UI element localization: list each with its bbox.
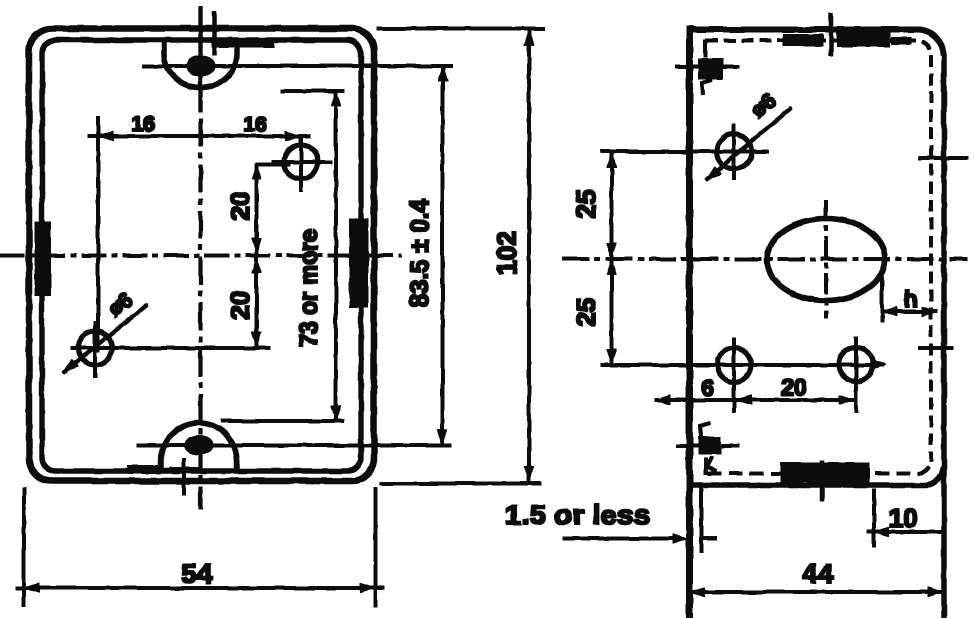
dimension 102 bottom extension bbox=[380, 482, 541, 485]
svg-text:16: 16 bbox=[131, 113, 154, 136]
svg-text:102: 102 bbox=[492, 231, 522, 275]
dimension 20-20 connector to hole bbox=[256, 163, 290, 166]
top center tick bbox=[829, 13, 833, 56]
front view inner wall bbox=[42, 40, 361, 471]
svg-text:25: 25 bbox=[571, 298, 601, 327]
side view left edge bbox=[687, 26, 693, 618]
dimension 102 line bbox=[528, 30, 531, 481]
wall thickness leader line bbox=[563, 537, 684, 540]
ink smudges on top edge bbox=[783, 35, 823, 47]
side view upper screw hole bbox=[717, 134, 752, 169]
svg-text:h: h bbox=[904, 286, 918, 312]
svg-text:20: 20 bbox=[225, 192, 255, 221]
svg-text:54: 54 bbox=[181, 558, 213, 589]
svg-text:44: 44 bbox=[802, 558, 834, 589]
hole centerline through bottom dot (83.5 extension) bbox=[137, 444, 451, 447]
ink smudge on inner bottom edge bbox=[128, 466, 158, 474]
bottom small cross tick horizontal bbox=[170, 468, 199, 471]
dimension 16-16 extension line bbox=[97, 117, 100, 352]
dimension 54 left extension bbox=[23, 488, 26, 607]
horizontal centerline bbox=[0, 254, 401, 257]
bottom boss screw dot bbox=[185, 436, 213, 455]
svg-text:20: 20 bbox=[781, 374, 807, 400]
hidden inner surface top dashed bbox=[706, 41, 931, 462]
svg-text:1.5 or less: 1.5 or less bbox=[505, 500, 650, 530]
dimension h extension bbox=[881, 277, 884, 322]
bottom small cross tick vertical bbox=[183, 458, 186, 495]
hole centerline through top dot (83.5 extension) bbox=[143, 65, 452, 68]
dimension 10 extension bbox=[873, 489, 876, 547]
ellipse vertical centerline bbox=[825, 200, 828, 318]
hidden inner surface bottom dashed bbox=[708, 460, 931, 474]
vertical centerline bbox=[199, 6, 202, 112]
dimension 73 top extension bbox=[281, 90, 344, 93]
svg-text:73 or more: 73 or more bbox=[295, 229, 323, 347]
large cable hole (ellipse) bbox=[767, 219, 885, 301]
leader line for hole diameter right view bbox=[706, 108, 791, 180]
left wall knockout tab bbox=[35, 222, 51, 296]
dimension 102 top extension bbox=[377, 27, 544, 30]
svg-text:6: 6 bbox=[702, 375, 715, 401]
dimension 54 right extension bbox=[374, 488, 377, 607]
dimension 20-20 line bbox=[255, 164, 258, 347]
screw hole upper right bbox=[284, 145, 318, 179]
dimension 73 bottom extension bbox=[221, 420, 344, 423]
screw hole lower left bbox=[78, 331, 112, 365]
front view outer wall bbox=[29, 29, 374, 482]
right edge tick upper bbox=[919, 157, 968, 160]
bottom center tick bbox=[820, 461, 824, 501]
side view horizontal centerline bbox=[563, 258, 967, 261]
top boss screw dot bbox=[187, 56, 215, 76]
side view lower-right screw hole bbox=[839, 348, 873, 382]
svg-text:25: 25 bbox=[571, 190, 601, 219]
side view top edge bbox=[687, 29, 944, 55]
top-left knockout tab bbox=[699, 59, 724, 79]
side view bottom edge bbox=[690, 468, 943, 486]
dimension 6-20 line bbox=[655, 399, 857, 402]
hidden inner surface left hooks bbox=[704, 40, 707, 57]
dimension 10 line bbox=[867, 531, 941, 534]
right edge tick lower bbox=[919, 347, 953, 350]
svg-text:ø6: ø6 bbox=[747, 89, 780, 122]
ink smudge on inner top edge bbox=[212, 39, 274, 48]
leader line for hole diameter bbox=[63, 305, 147, 373]
wall thickness inner surface tick bbox=[700, 487, 703, 553]
dimension 83.5 line bbox=[441, 66, 444, 445]
svg-text:20: 20 bbox=[225, 291, 255, 320]
ink smudge on bottom edge bbox=[781, 463, 869, 482]
dimension h line bbox=[882, 310, 937, 313]
dimension 44 line bbox=[689, 591, 943, 594]
bottom mounting boss bbox=[161, 423, 237, 471]
dimension 73 line bbox=[335, 91, 338, 421]
line through lower holes bbox=[601, 364, 884, 367]
side view lower-left screw hole bbox=[717, 348, 751, 382]
top mounting boss bbox=[164, 42, 237, 88]
svg-text:83.5 ± 0.4: 83.5 ± 0.4 bbox=[404, 198, 434, 307]
svg-text:10: 10 bbox=[889, 503, 918, 533]
dimension 25-25 line bbox=[610, 152, 613, 364]
right wall knockout tab bbox=[350, 219, 369, 307]
top auxiliary tick bbox=[213, 12, 217, 55]
bottom-left knockout tab bbox=[699, 437, 721, 454]
dimension 54 line bbox=[16, 587, 384, 590]
side view right edge bbox=[942, 54, 947, 618]
dimension 16-16 line bbox=[88, 135, 310, 138]
svg-text:16: 16 bbox=[243, 113, 266, 136]
